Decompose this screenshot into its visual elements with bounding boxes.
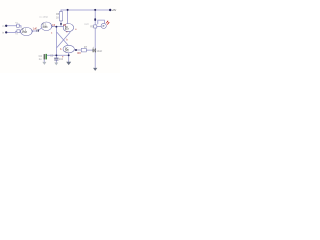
svg-text:1K: 1K [56, 16, 59, 19]
svg-text:LED: LED [84, 23, 89, 26]
svg-text:104: 104 [59, 58, 64, 61]
svg-text:+9V: +9V [112, 8, 117, 12]
svg-text:4558: 4558 [22, 32, 28, 34]
svg-text:1uF: 1uF [33, 28, 38, 31]
svg-text:10uF: 10uF [97, 50, 103, 53]
svg-text:4558: 4558 [42, 27, 48, 29]
svg-text:IC 4558: IC 4558 [40, 16, 49, 19]
